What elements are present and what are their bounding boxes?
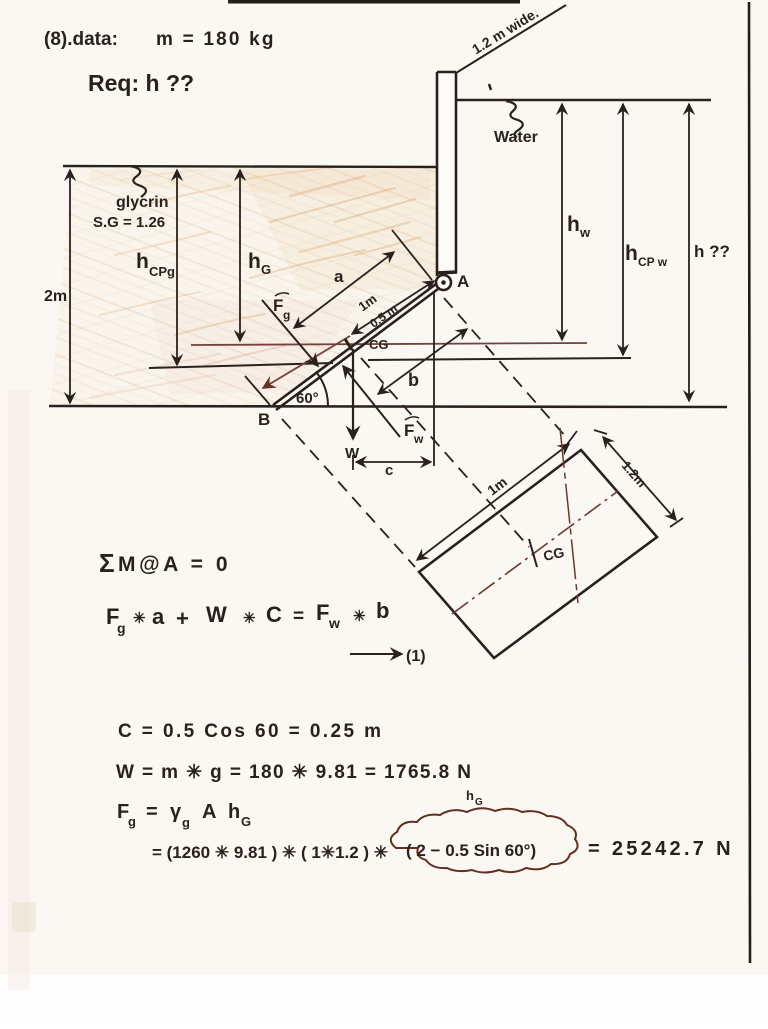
- svg-text:( 2 − 0.5 Sin 60°): ( 2 − 0.5 Sin 60°): [406, 841, 536, 860]
- svg-text:=: =: [146, 801, 158, 823]
- svg-text:✳: ✳: [353, 608, 366, 625]
- svg-text:(1): (1): [406, 648, 426, 665]
- paper edge dark strip top: [228, 0, 520, 4]
- plan 1.2m arrow: [594, 430, 683, 527]
- svg-text:h: h: [625, 242, 638, 265]
- dashed construction line from CG: [361, 358, 529, 547]
- paper right edge line: [749, 2, 750, 963]
- svg-text:w: w: [413, 432, 424, 446]
- svg-text:m = 180 kg: m = 180 kg: [156, 29, 276, 50]
- svg-text:h: h: [228, 801, 240, 823]
- svg-text:γ: γ: [170, 801, 182, 823]
- hCPg level line: [149, 363, 333, 368]
- hCPw level line: [368, 358, 631, 360]
- svg-text:G: G: [241, 814, 251, 829]
- svg-text:g: g: [283, 308, 290, 322]
- svg-text:Water: Water: [494, 129, 538, 146]
- Fw arrow: [343, 366, 424, 446]
- svg-text:G: G: [261, 262, 271, 277]
- svg-text:g: g: [117, 620, 126, 636]
- ground line: [49, 406, 727, 407]
- svg-text:a: a: [152, 604, 165, 629]
- Fg arrow: [262, 293, 318, 366]
- dashed construction line from B: [282, 419, 415, 567]
- svg-text:w: w: [328, 615, 340, 631]
- CG tick plan: [529, 539, 537, 567]
- equation sum M@A = 0: [99, 548, 231, 578]
- plan 1m arrow: [417, 444, 569, 560]
- svg-text:W = m ✳ g = 180 ✳ 9.81 = 176: W = m ✳ g = 180 ✳ 9.81 = 1765.8 N: [116, 762, 472, 783]
- svg-text:Req: h ??: Req: h ??: [88, 70, 194, 96]
- svg-text:= (1260 ✳ 9.81 ) ✳ ( 1✳1.2 ) ✳: = (1260 ✳ 9.81 ) ✳ ( 1✳1.2 ) ✳: [152, 843, 388, 862]
- svg-text:S.G = 1.26: S.G = 1.26: [93, 214, 165, 231]
- svg-text:C: C: [266, 602, 282, 627]
- svg-text:2m: 2m: [44, 288, 67, 305]
- dim hCPg: [136, 170, 177, 365]
- svg-text:CG: CG: [369, 337, 389, 352]
- water surface line: [456, 99, 711, 101]
- svg-text:✳: ✳: [133, 610, 146, 627]
- faint olive mark bottom left: [12, 902, 36, 932]
- faint left pink streak: [8, 390, 30, 990]
- inclined gate: [273, 284, 438, 410]
- equation Fg*a + W*C = Fw*b: [106, 598, 389, 636]
- svg-text:g: g: [182, 815, 190, 830]
- dim hG: [240, 170, 271, 341]
- svg-text:C = 0.5 Cos 60 = 0.25 m: C = 0.5 Cos 60 = 0.25 m: [118, 721, 383, 742]
- svg-text:CP w: CP w: [638, 255, 668, 269]
- dim hw: [562, 104, 591, 340]
- svg-text:B: B: [258, 410, 270, 429]
- plan long centerline dash-dot: [452, 491, 618, 614]
- b arrow: [378, 329, 467, 394]
- svg-text:=: =: [293, 606, 304, 627]
- svg-text:M@A = 0: M@A = 0: [118, 553, 231, 576]
- dashed construction line from A: [444, 298, 566, 437]
- 60 deg arc: [317, 373, 328, 407]
- svg-text:60°: 60°: [296, 390, 319, 407]
- glycerin colored-pencil scribble strokes: [90, 168, 420, 398]
- CG tick on gate: [345, 339, 352, 350]
- svg-text:A: A: [457, 272, 469, 291]
- svg-text:h: h: [136, 250, 149, 273]
- dim hCPw: [623, 104, 668, 355]
- glycerin squiggle: [130, 166, 146, 197]
- c dimension: [353, 455, 431, 479]
- svg-text:F: F: [404, 421, 414, 440]
- hG level line (brown): [191, 343, 587, 345]
- svg-text:g: g: [128, 814, 136, 829]
- hinge A circle: [436, 275, 451, 290]
- svg-text:a: a: [334, 267, 344, 286]
- gate length dim A to CG (1m / 0.5m): [245, 281, 434, 405]
- dim a arrow: [294, 230, 432, 328]
- 1.2 m wide label: [469, 5, 541, 58]
- svg-text:c: c: [385, 462, 393, 479]
- tick at end of A line: [565, 431, 577, 447]
- glycerin surface line: [63, 166, 437, 167]
- title text (8).data: m = 180 kg: [44, 29, 276, 50]
- vertical line from A down: [433, 291, 435, 466]
- W arrow: [345, 349, 360, 462]
- svg-text:b: b: [376, 598, 389, 623]
- svg-text:W: W: [206, 602, 227, 627]
- svg-text:✳: ✳: [243, 610, 256, 627]
- svg-text:F: F: [316, 600, 329, 625]
- svg-text:(8).data:: (8).data:: [44, 29, 118, 50]
- glycerin shaded region: [50, 168, 437, 406]
- arrow (1): [350, 648, 426, 665]
- svg-text:h: h: [567, 213, 580, 236]
- dim h??: [689, 104, 730, 401]
- svg-text:glycrin: glycrin: [116, 194, 168, 211]
- svg-text:G: G: [475, 797, 483, 808]
- svg-text:F: F: [273, 296, 283, 315]
- svg-text:CPg: CPg: [149, 264, 175, 279]
- vertical gate: [436, 72, 457, 276]
- water squiggle: [506, 101, 523, 137]
- svg-text:h: h: [466, 788, 474, 803]
- dim 2m: [44, 170, 70, 403]
- svg-text:+: +: [176, 606, 189, 631]
- svg-text:w: w: [579, 225, 591, 240]
- svg-text:h ??: h ??: [694, 242, 730, 261]
- plan steep line: [560, 428, 578, 603]
- svg-text:A: A: [202, 801, 216, 823]
- plan view rectangle: [419, 450, 657, 658]
- svg-text:= 25242.7 N: = 25242.7 N: [588, 838, 734, 860]
- 1.2m wide pointer line: [456, 5, 566, 73]
- svg-text:b: b: [408, 370, 419, 390]
- eq Fg = gamma A hG: [117, 801, 251, 830]
- svg-text:h: h: [248, 250, 261, 273]
- small dot above water: [489, 84, 491, 90]
- cloud around (2 - 0.5 Sin 60): [391, 808, 578, 872]
- svg-text:Σ: Σ: [99, 548, 115, 578]
